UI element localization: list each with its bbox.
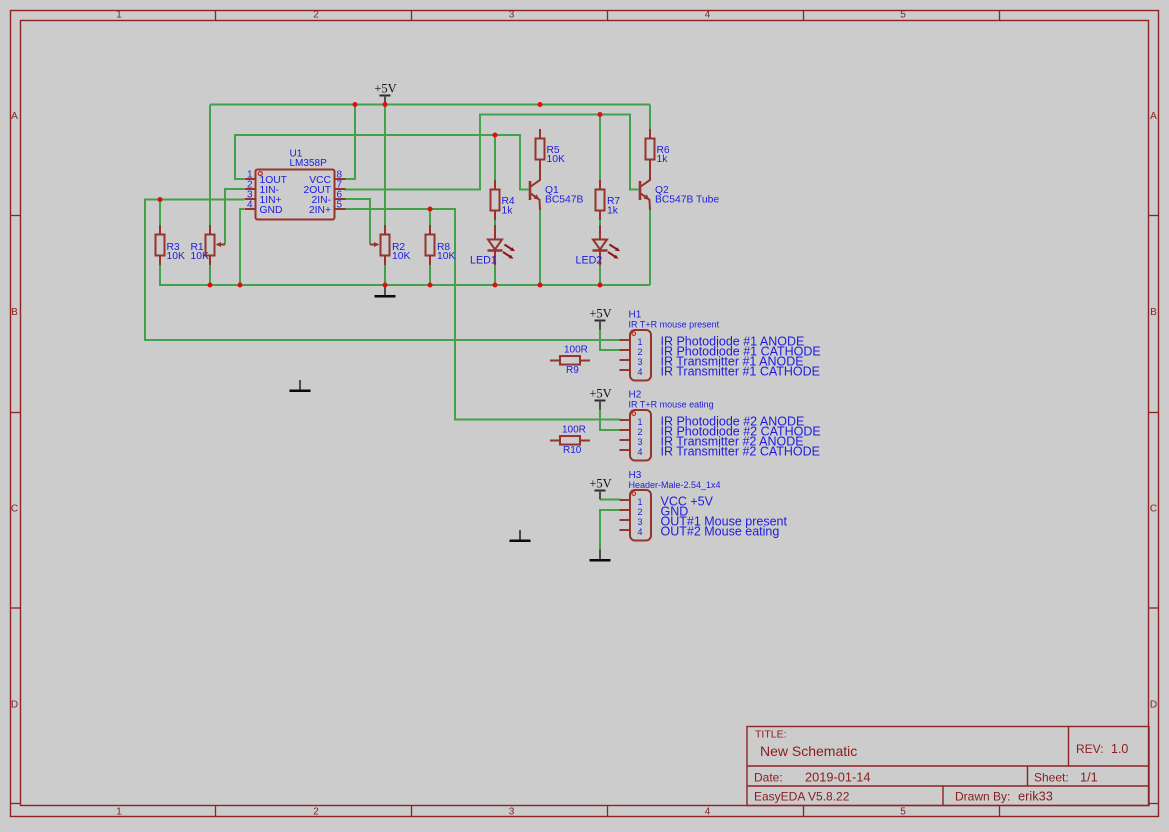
svg-text:EasyEDA V5.8.22: EasyEDA V5.8.22 xyxy=(754,790,850,804)
svg-text:2: 2 xyxy=(638,427,643,437)
svg-text:1: 1 xyxy=(116,806,122,817)
svg-text:10K: 10K xyxy=(392,251,410,262)
svg-text:GND: GND xyxy=(260,205,283,216)
svg-text:Date:: Date: xyxy=(754,771,783,785)
svg-text:TITLE:: TITLE: xyxy=(755,729,787,741)
svg-text:100R: 100R xyxy=(564,345,588,356)
svg-text:IR Transmitter #1 CATHODE: IR Transmitter #1 CATHODE xyxy=(661,364,821,378)
svg-text:erik33: erik33 xyxy=(1018,789,1053,804)
svg-text:Header-Male-2.54_1x4: Header-Male-2.54_1x4 xyxy=(629,480,721,490)
svg-text:4: 4 xyxy=(638,367,643,377)
svg-text:1k: 1k xyxy=(607,205,619,216)
svg-text:1/1: 1/1 xyxy=(1080,770,1098,785)
svg-text:+5V: +5V xyxy=(589,476,611,490)
svg-text:1: 1 xyxy=(638,497,643,507)
svg-text:R10: R10 xyxy=(563,445,582,456)
svg-text:4: 4 xyxy=(638,447,643,457)
svg-text:R9: R9 xyxy=(566,365,579,376)
svg-text:3: 3 xyxy=(638,357,643,367)
svg-text:LED1: LED1 xyxy=(470,254,497,266)
svg-text:10K: 10K xyxy=(191,251,209,262)
svg-text:3: 3 xyxy=(638,437,643,447)
svg-text:1: 1 xyxy=(116,10,122,21)
svg-text:2: 2 xyxy=(313,10,319,21)
svg-text:5: 5 xyxy=(900,806,906,817)
svg-text:IR T+R mouse present: IR T+R mouse present xyxy=(629,319,720,329)
svg-text:4: 4 xyxy=(638,527,643,537)
svg-text:+5V: +5V xyxy=(589,306,611,320)
svg-text:BC547B Tube: BC547B Tube xyxy=(655,194,719,205)
svg-text:C: C xyxy=(11,503,18,514)
svg-text:100R: 100R xyxy=(562,425,586,436)
svg-text:2: 2 xyxy=(638,507,643,517)
svg-text:+5V: +5V xyxy=(589,386,611,400)
svg-text:3: 3 xyxy=(509,10,515,21)
svg-text:LM358P: LM358P xyxy=(290,158,328,169)
svg-text:LED2: LED2 xyxy=(576,254,603,266)
svg-text:1k: 1k xyxy=(657,154,669,165)
svg-text:A: A xyxy=(1150,111,1157,122)
svg-text:IR Transmitter #2 CATHODE: IR Transmitter #2 CATHODE xyxy=(661,444,821,458)
svg-text:D: D xyxy=(11,699,18,710)
svg-text:4: 4 xyxy=(705,806,711,817)
svg-text:BC547B: BC547B xyxy=(545,194,583,205)
svg-text:B: B xyxy=(11,307,18,318)
svg-text:3: 3 xyxy=(509,806,515,817)
svg-text:D: D xyxy=(1150,699,1157,710)
svg-text:5: 5 xyxy=(337,199,343,210)
svg-text:4: 4 xyxy=(247,199,253,210)
svg-text:4: 4 xyxy=(705,10,711,21)
svg-text:1: 1 xyxy=(638,337,643,347)
svg-text:REV:: REV: xyxy=(1076,742,1104,756)
svg-text:2: 2 xyxy=(638,347,643,357)
svg-text:3: 3 xyxy=(638,517,643,527)
svg-text:10K: 10K xyxy=(437,251,455,262)
svg-text:Drawn By:: Drawn By: xyxy=(955,790,1010,804)
svg-text:10K: 10K xyxy=(167,251,185,262)
svg-text:1.0: 1.0 xyxy=(1111,742,1128,756)
svg-text:A: A xyxy=(11,111,18,122)
svg-text:Sheet:: Sheet: xyxy=(1034,771,1069,785)
svg-text:2019-01-14: 2019-01-14 xyxy=(805,770,870,785)
svg-text:+5V: +5V xyxy=(374,81,396,95)
svg-text:2: 2 xyxy=(313,806,319,817)
svg-text:IR T+R mouse eating: IR T+R mouse eating xyxy=(629,399,714,409)
svg-text:OUT#2 Mouse eating: OUT#2 Mouse eating xyxy=(661,524,780,538)
svg-text:1: 1 xyxy=(638,417,643,427)
svg-text:B: B xyxy=(1150,307,1157,318)
svg-text:2IN+: 2IN+ xyxy=(309,205,331,216)
svg-text:10K: 10K xyxy=(547,154,565,165)
svg-text:5: 5 xyxy=(900,10,906,21)
svg-text:C: C xyxy=(1150,503,1157,514)
svg-text:New Schematic: New Schematic xyxy=(760,743,857,759)
svg-text:1k: 1k xyxy=(502,205,514,216)
